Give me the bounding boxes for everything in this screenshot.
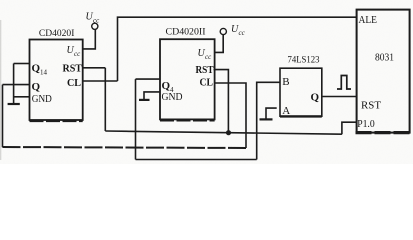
wire U1 RST pin to right (83, 67, 106, 69)
wire RST chain riser down from U1 RST (104, 68, 106, 131)
wire U3 A pin to ground (266, 108, 277, 119)
wire U1 GND pin to ground (14, 96, 30, 98)
IC U4 8031 box (357, 10, 410, 133)
wire U2 Ucc pin to power circle (215, 35, 224, 53)
svg-text:CD4020I: CD4020I (39, 29, 75, 39)
svg-text:cc: cc (239, 29, 246, 37)
IC U2 CD4020 II box (160, 39, 215, 119)
wire U2 Q4 pin stub (136, 78, 161, 80)
wire B riser up to U3 B pin (257, 82, 280, 159)
wire far-left riser down (2, 85, 4, 148)
IC U2 bottom heavy edge (160, 119, 215, 122)
wire RST rail across bottom to P1.0 riser (105, 131, 342, 134)
svg-text:14: 14 (40, 69, 48, 77)
svg-text:CL: CL (200, 76, 214, 88)
svg-text:RST: RST (361, 100, 381, 112)
wire bottom long rail from left riser to U2 CL riser (3, 147, 247, 148)
svg-text:CD4020II: CD4020II (166, 28, 206, 38)
wire ALE top rail from node above U1 CL to 8031 ALE pin (118, 17, 357, 81)
pulse waveform symbol at 8031 RST (337, 76, 351, 90)
svg-text:ALE: ALE (359, 14, 378, 26)
wire U3 Q output to 8031 RST pin (322, 96, 357, 98)
svg-text:CL: CL (67, 77, 81, 89)
wire U1 Q14 pin stub (14, 63, 30, 65)
svg-text:GND: GND (162, 92, 183, 103)
svg-text:A: A (282, 105, 290, 117)
IC U1 CD4020 I box (30, 40, 83, 121)
wire riser up to P1.0 pin of 8031 (342, 122, 357, 134)
IC U4 bottom heavy edge (356, 131, 411, 134)
svg-text:RST: RST (63, 62, 83, 74)
wire U1 Ucc pin to power circle (83, 29, 96, 49)
power terminal circle for U2 Ucc (220, 28, 226, 34)
IC U3 bottom heavy edge (280, 115, 322, 117)
svg-text:GND: GND (32, 94, 52, 105)
ground bar for U1 (8, 103, 20, 105)
scan edge artifact left border (0, 20, 2, 160)
svg-text:P1.0: P1.0 (357, 119, 375, 130)
svg-text:cc: cc (74, 50, 81, 58)
wire lower rail from Q4 riser to B riser (136, 159, 257, 161)
wire U1 CL pin to top-rail riser (83, 80, 118, 82)
svg-text:RST: RST (196, 64, 215, 76)
svg-text:Q: Q (311, 92, 320, 104)
wire vertical at left of U1 from Q14 down to ground (13, 64, 15, 104)
svg-text:Q: Q (32, 81, 41, 93)
IC U3 74LS123 box (280, 68, 322, 116)
svg-text:8031: 8031 (375, 52, 394, 63)
svg-text:cc: cc (205, 53, 212, 61)
paper noise backdrop (0, 0, 413, 164)
ground bar for U3 A input (260, 118, 273, 120)
IC U1 bottom heavy edge (30, 120, 83, 123)
svg-text:cc: cc (93, 17, 100, 25)
wire U1 Q pin to far-left riser (3, 84, 30, 86)
wire U2 RST pin to riser (214, 70, 229, 133)
ground bar for U2 (139, 99, 150, 101)
wire U2 CL pin to right then down to bottom rail (215, 83, 246, 148)
svg-text:B: B (282, 76, 289, 88)
junction dot RST rail / U2 RST (226, 130, 231, 135)
svg-text:74LS123: 74LS123 (288, 55, 320, 65)
wire Q4 riser down to lower rail (135, 79, 137, 159)
wire U2 GND pin to ground (144, 92, 160, 99)
power terminal circle for U1 Ucc (92, 23, 98, 29)
